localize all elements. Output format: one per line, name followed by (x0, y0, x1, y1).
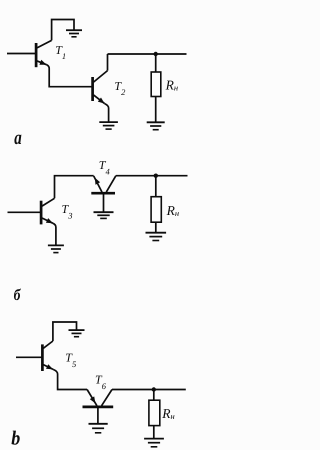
wire: T3 emitter down to ground (53, 223, 56, 245)
ground below resistor v (144, 439, 164, 447)
node: junction at load, circuit a (154, 52, 158, 56)
svg-text:а: а (14, 127, 21, 149)
ground at T3 emitter (48, 245, 64, 252)
svg-text:Rн: Rн (165, 77, 178, 92)
wire: node down to resistor (155, 54, 157, 72)
svg-text:T2: T2 (114, 79, 126, 97)
svg-text:T4: T4 (99, 158, 111, 176)
svg-text:Rн: Rн (166, 203, 179, 218)
transistor T2 (93, 71, 108, 104)
transistor T4 (91, 176, 116, 194)
wire: input of circuit a (7, 53, 36, 55)
wire: T1 emitter down and right to T2 base (47, 65, 93, 87)
ground below resistor b (146, 233, 167, 241)
svg-text:б: б (14, 287, 22, 304)
transistor T3 (41, 198, 54, 224)
node: junction at load, circuit v (152, 387, 156, 391)
resistor Rn of circuit b (151, 197, 161, 223)
ground at T6 base (89, 424, 108, 433)
wire: T2 collector up (107, 54, 109, 71)
svg-text:T6: T6 (95, 373, 107, 391)
wire: input of circuit b (8, 211, 42, 213)
ground at T5 collector (69, 330, 85, 337)
wire: T1 collector up and right to ground (52, 20, 74, 41)
transistor T6 (83, 390, 114, 407)
wire: T6 base stem down (97, 407, 99, 423)
wire: resistor b down to ground (155, 222, 157, 232)
svg-text:b: b (11, 428, 20, 450)
wire: resistor v down to ground (153, 426, 155, 438)
wire: T5 emitter down and right to T6 emitter (53, 369, 87, 389)
svg-text:T1: T1 (55, 43, 66, 61)
svg-text:T3: T3 (62, 202, 73, 220)
wire: output rail of circuit a (108, 53, 187, 55)
ground below resistor a (147, 122, 165, 129)
wire: T2 emitter down to ground (105, 104, 109, 122)
wire: T4 base stem down (103, 193, 105, 212)
wire: resistor a down to ground (155, 97, 157, 122)
transistor T1 (36, 40, 52, 67)
transistor T5 (42, 341, 53, 371)
ground at T1 collector (66, 30, 82, 37)
node: junction at load, circuit b (154, 174, 158, 178)
wire: T6 collector right to output rail (112, 389, 186, 391)
wire: T4 collector right to output rail (116, 175, 188, 177)
ground at T2 emitter (99, 122, 118, 129)
svg-text:T5: T5 (65, 351, 76, 369)
svg-text:Rн: Rн (161, 406, 174, 421)
wire: T5 collector up and right to ground (53, 322, 77, 341)
wire: T3 collector up and right to T4 emitter (55, 176, 94, 199)
wire: node down to resistor v (153, 390, 155, 401)
resistor Rn of circuit v (149, 400, 160, 425)
ground at T4 base (94, 212, 114, 218)
wire: input of circuit v (16, 356, 42, 358)
resistor Rn of circuit a (151, 72, 161, 97)
wire: node down to resistor b (155, 176, 157, 197)
